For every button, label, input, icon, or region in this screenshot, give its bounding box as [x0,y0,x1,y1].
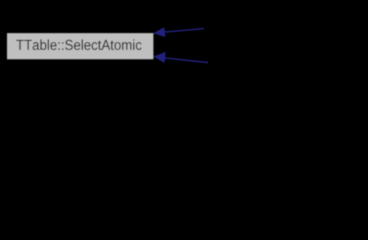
wire: bottom caller edge line [165,58,208,63]
wire: top caller edge line [165,29,204,32]
arrowhead: top caller edge into node [154,28,165,37]
node box TTable::SelectAtomic [7,33,153,59]
arrowhead: bottom caller edge into node [154,52,165,62]
node label "TTable::SelectAtomic" [16,39,141,50]
doxygen caller-graph diagram [0,0,368,93]
